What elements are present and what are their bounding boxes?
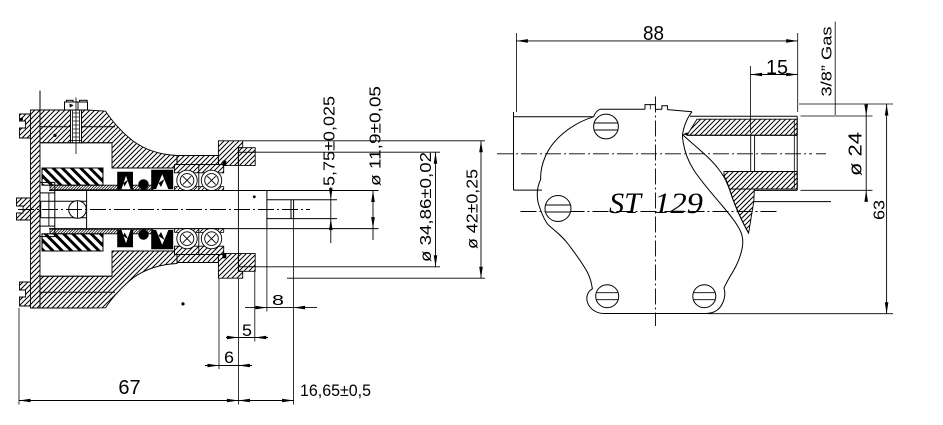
svg-text:3/8” Gas: 3/8” Gas <box>819 27 836 97</box>
svg-text:8: 8 <box>272 292 284 309</box>
svg-text:67: 67 <box>118 377 140 399</box>
svg-text:5: 5 <box>242 321 252 340</box>
svg-text:63: 63 <box>872 200 889 220</box>
svg-text:ø 42±0,25: ø 42±0,25 <box>465 169 482 249</box>
svg-text:88: 88 <box>643 23 664 45</box>
svg-text:ø 24: ø 24 <box>846 132 866 176</box>
svg-text:16,65±0,5: 16,65±0,5 <box>300 381 371 400</box>
svg-text:ø 11,9±0,05: ø 11,9±0,05 <box>368 86 385 186</box>
svg-text:15: 15 <box>766 57 788 79</box>
svg-text:ø 34,86±0,02: ø 34,86±0,02 <box>418 152 435 262</box>
svg-text:ST: ST <box>609 187 643 220</box>
svg-text:6: 6 <box>224 348 234 367</box>
svg-text:129: 129 <box>654 187 703 220</box>
